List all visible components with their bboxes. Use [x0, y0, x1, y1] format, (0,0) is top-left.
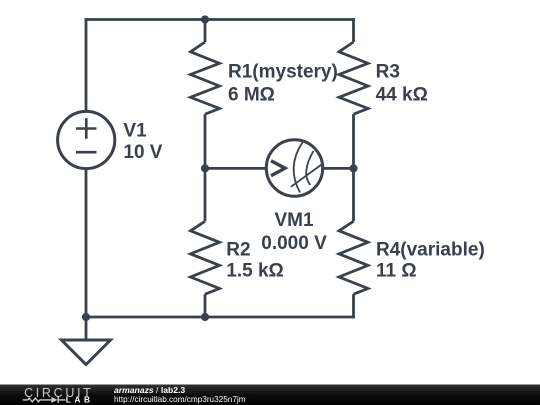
svg-text:10 V: 10 V [123, 142, 162, 163]
resistor R1 zigzag [191, 42, 220, 114]
svg-text:11 Ω: 11 Ω [376, 261, 417, 282]
wire R2 top stub [204, 168, 207, 221]
svg-text:R1(mystery): R1(mystery) [228, 62, 338, 83]
wire R3 bottom stub [352, 114, 355, 168]
resistor R2 zigzag [191, 221, 220, 294]
svg-text:0.000 V: 0.000 V [261, 233, 327, 254]
resistor R3 zigzag [339, 42, 368, 114]
wire V1 bottom stub [85, 168, 88, 317]
V1 plus sign [76, 118, 97, 138]
logo diode symbol [51, 397, 57, 403]
svg-text:1.5 kΩ: 1.5 kΩ [226, 261, 283, 282]
node junction dot middle right [349, 164, 357, 172]
svg-text:6 MΩ: 6 MΩ [228, 84, 275, 105]
wire R3 top stub [352, 18, 355, 42]
wire middle left (node to voltmeter) [205, 167, 267, 170]
svg-text:LAB: LAB [66, 395, 94, 405]
wire middle right (voltmeter to node) [322, 167, 354, 170]
svg-text:44 kΩ: 44 kΩ [376, 84, 428, 105]
wire bottom rail [85, 316, 355, 319]
VM1 chevron [271, 161, 285, 176]
wire R4 top stub [352, 168, 355, 221]
voltmeter VM1 circle [266, 140, 322, 196]
VM1 gauge arc inner [306, 151, 313, 185]
svg-text:R2: R2 [226, 239, 250, 260]
node junction dot middle left [201, 164, 209, 172]
node junction dot top (R1/top rail) [201, 15, 209, 23]
svg-text:R3: R3 [376, 62, 400, 83]
wire R4 bottom stub [352, 294, 355, 318]
svg-text:V1: V1 [123, 120, 147, 141]
footer black bar [0, 385, 540, 405]
wire ground stub [85, 317, 88, 340]
wire top rail [85, 18, 355, 21]
svg-text:VM1: VM1 [274, 210, 314, 231]
svg-text:R4(variable): R4(variable) [376, 239, 485, 260]
wire R1 bottom stub [204, 114, 207, 168]
svg-text:http://circuitlab.com/cmp3ru32: http://circuitlab.com/cmp3ru325n7jm [114, 395, 246, 404]
VM1 gauge arc outer [294, 142, 303, 193]
V1 minus sign [76, 151, 97, 154]
wire R1 top stub [204, 20, 207, 43]
node junction dot ground [82, 313, 90, 321]
voltage source V1 circle [58, 111, 115, 168]
ground symbol triangle [62, 340, 111, 365]
svg-text:armanazs / lab2.3: armanazs / lab2.3 [114, 385, 185, 395]
VM1 needle [291, 164, 323, 187]
resistor R4 zigzag [339, 221, 368, 294]
wire R2 bottom stub [204, 294, 207, 317]
node junction dot bottom (R2/bottom rail) [201, 313, 209, 321]
logo resistor squiggle [23, 398, 52, 402]
wire left vertical (top rail to V1 top) [85, 18, 88, 112]
